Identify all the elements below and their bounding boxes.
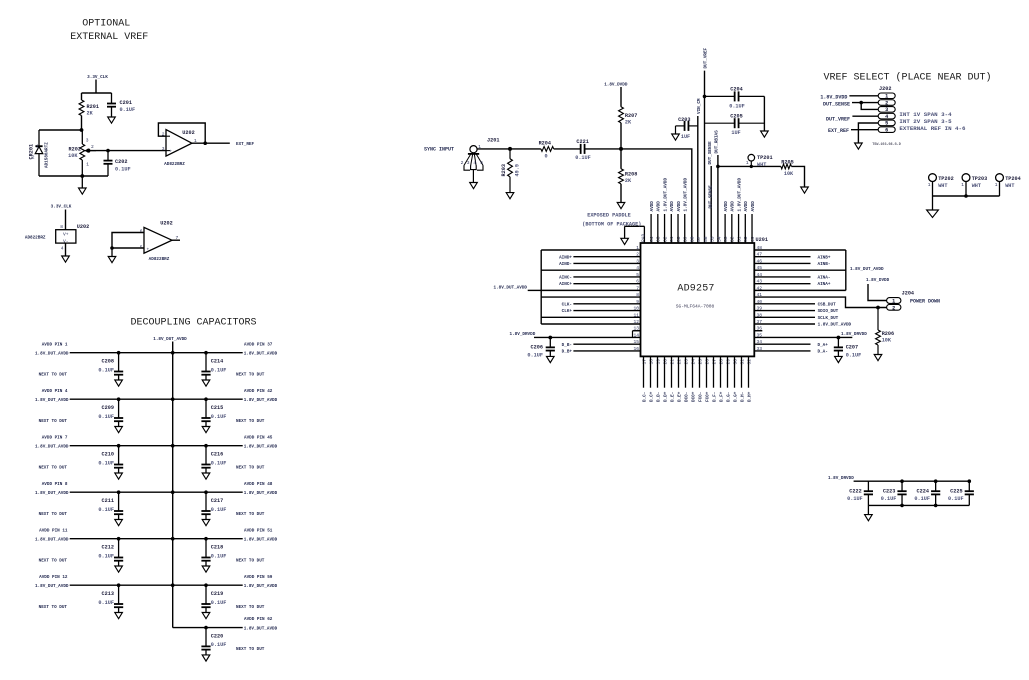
U201 pin 61: [669, 201, 675, 243]
svg-text:2K: 2K: [87, 111, 94, 117]
svg-text:J202: J202: [879, 86, 891, 92]
svg-text:63: 63: [656, 236, 662, 242]
svg-text:C201: C201: [120, 100, 132, 106]
svg-text:3: 3: [162, 146, 165, 152]
svg-text:49: 49: [750, 236, 756, 242]
op-amp U202 (A): [162, 130, 197, 167]
svg-text:C222: C222: [849, 489, 861, 495]
wire decoupling row 4: [70, 491, 243, 494]
svg-text:0.1UF: 0.1UF: [211, 460, 227, 466]
svg-text:NEXT TO DUT: NEXT TO DUT: [39, 372, 68, 377]
capacitor C203 1UF: [676, 117, 698, 140]
svg-text:DCO-: DCO-: [684, 392, 689, 402]
ground: [202, 473, 210, 479]
svg-text:1.8V_DUT_AVDD: 1.8V_DUT_AVDD: [244, 627, 278, 632]
capacitor C213 0.1UF: [98, 585, 123, 612]
svg-text:21: 21: [669, 359, 675, 365]
net label AVDD PIN 48 / 1.8V_DUT_AVDD right: [236, 482, 278, 517]
svg-text:64: 64: [649, 236, 655, 242]
svg-text:1.8V_DUT_AVDD: 1.8V_DUT_AVDD: [850, 267, 884, 272]
wire sync to U201 pin 58: [585, 147, 692, 243]
svg-text:55: 55: [710, 236, 716, 242]
net label AVDD PIN 12 / 1.8V_DUT_AVDD left: [35, 575, 69, 610]
svg-text:3: 3: [467, 160, 470, 166]
ground: [115, 473, 123, 479]
net label SYNC INPUT: [424, 147, 454, 153]
connector J204 POWER DOWN: [887, 291, 940, 312]
op-amp U202 power pins V+ V-: [25, 224, 89, 252]
U201 pin 32: [746, 356, 752, 402]
test point TP203: [961, 174, 987, 196]
svg-text:AVDD PIN 12: AVDD PIN 12: [39, 575, 68, 580]
svg-text:0.1UF: 0.1UF: [98, 507, 114, 513]
svg-text:C224: C224: [917, 489, 929, 495]
wire decoupling row 3: [70, 444, 243, 447]
capacitor C214 0.1UF: [201, 353, 226, 380]
svg-text:TSW-103-08-G-D: TSW-103-08-G-D: [872, 143, 901, 147]
svg-text:32: 32: [746, 359, 752, 365]
U201 pin 43: [754, 279, 831, 288]
ground: [62, 256, 70, 262]
svg-text:R202: R202: [69, 147, 81, 153]
svg-text:C209: C209: [102, 405, 114, 411]
capacitor C206 0.1UF: [527, 336, 554, 358]
svg-text:1: 1: [892, 299, 895, 305]
svg-text:U202: U202: [77, 224, 89, 230]
svg-text:4: 4: [885, 114, 888, 120]
ground: [470, 183, 478, 189]
svg-text:10K: 10K: [68, 153, 78, 159]
svg-text:1.8V_DUT_AVDD: 1.8V_DUT_AVDD: [244, 584, 278, 589]
svg-text:1.8V_DUT_AVDD: 1.8V_DUT_AVDD: [35, 491, 69, 496]
capacitor C218 0.1UF: [201, 539, 226, 566]
svg-text:56: 56: [703, 236, 709, 242]
U201 pin 20: [662, 356, 668, 402]
svg-text:2K: 2K: [625, 178, 632, 184]
U201 pin 48: [754, 245, 846, 251]
wire: [763, 96, 765, 131]
svg-text:AVDD PIN 48: AVDD PIN 48: [244, 482, 273, 487]
svg-text:WHT: WHT: [972, 183, 981, 189]
net 1.8V_DVDD to J202 pin1: [820, 95, 878, 101]
connector J202: [872, 86, 901, 147]
svg-text:0.1UF: 0.1UF: [98, 553, 114, 559]
svg-text:1.8V_DUT_AVDD: 1.8V_DUT_AVDD: [35, 538, 69, 543]
net label AVDD PIN 8 / 1.8V_DUT_AVDD left: [35, 482, 69, 517]
ground: [865, 505, 873, 520]
wire: [791, 166, 804, 187]
wire: [39, 129, 83, 132]
net 1.8V_DUT_AVDD label right bus: [850, 267, 884, 272]
svg-text:+: +: [169, 150, 172, 155]
svg-text:AINC-: AINC-: [559, 276, 572, 281]
U201 pin 50: [743, 201, 749, 243]
svg-text:C225: C225: [950, 489, 962, 495]
capacitor C215 0.1UF: [201, 399, 226, 426]
net label AVDD PIN 59 / 1.8V_DUT_AVDD right: [236, 575, 278, 610]
svg-text:TP203: TP203: [972, 176, 988, 182]
resistor R207 2K: [619, 107, 638, 126]
svg-text:WHT: WHT: [1005, 183, 1014, 189]
svg-text:AVDD PIN 51: AVDD PIN 51: [244, 528, 273, 533]
net 1.8V_DRVDD: [828, 476, 969, 481]
svg-text:DUT_VREF: DUT_VREF: [704, 47, 709, 68]
svg-text:AINB+: AINB+: [818, 255, 831, 260]
wire: [620, 184, 622, 203]
capacitor C202: [104, 151, 131, 176]
ground: [108, 247, 116, 263]
svg-text:D_E+: D_E+: [677, 391, 682, 402]
svg-text:DUT_SENSE: DUT_SENSE: [823, 101, 850, 107]
ground: [621, 226, 629, 244]
svg-text:D_F+: D_F+: [719, 391, 724, 402]
U201 pin 52: [730, 201, 736, 243]
U201 pin 60: [676, 201, 682, 243]
capacitor C224 0.1UF: [914, 480, 940, 507]
net 1.8V_DRVDD label pin35: [841, 332, 867, 337]
net label AVDD PIN 45 / 1.8V_DUT_AVDD right: [236, 435, 278, 470]
net EXT_REF to J202 pin6: [828, 128, 878, 134]
capacitor C225 0.1UF: [948, 480, 974, 505]
wire: [620, 123, 622, 169]
diode CR201 AD1580ARTZ: [29, 130, 50, 176]
svg-text:2K: 2K: [625, 120, 632, 126]
wire: [868, 504, 969, 506]
svg-text:INT 2V SPAN 3-5: INT 2V SPAN 3-5: [899, 118, 952, 125]
svg-text:D_G-: D_G-: [726, 392, 731, 402]
U201 pin 7: [541, 285, 640, 291]
svg-text:R205: R205: [781, 160, 793, 166]
svg-text:U202: U202: [182, 130, 194, 136]
capacitor C217 0.1UF: [201, 492, 226, 519]
svg-text:D_D+: D_D+: [663, 391, 668, 402]
ground: [506, 193, 514, 199]
svg-text:0.1UF: 0.1UF: [847, 496, 863, 502]
U201 pin 16: [562, 346, 641, 355]
U201 pin 24: [690, 356, 696, 402]
svg-text:0.1UF: 0.1UF: [211, 367, 227, 373]
wire from R202 wiper to op-amp: [88, 149, 166, 152]
net 1.8V_DRVDD label pin14: [510, 332, 536, 337]
svg-text:DCO+: DCO+: [691, 391, 696, 402]
svg-text:0.1UF: 0.1UF: [914, 496, 930, 502]
capacitor C207 0.1UF: [834, 337, 861, 358]
svg-text:25: 25: [697, 359, 703, 365]
svg-text:AVDD PIN 7: AVDD PIN 7: [42, 435, 68, 440]
U201 pin 54: [716, 236, 722, 242]
U201 pin 57: [696, 236, 702, 242]
net VIN_CM pin 57 wire: [697, 98, 702, 243]
ground: [835, 356, 843, 362]
net label AVDD PIN 7 / 1.8V_DUT_AVDD left: [35, 435, 69, 470]
svg-text:SYNC INPUT: SYNC INPUT: [424, 147, 454, 153]
wire left AVDD bus: [540, 250, 542, 324]
svg-text:D_C-: D_C-: [642, 392, 647, 402]
svg-text:AVDD PIN 62: AVDD PIN 62: [244, 617, 273, 622]
wire test points: [933, 195, 1000, 198]
svg-text:0.1UF: 0.1UF: [211, 642, 227, 648]
svg-text:OPTIONAL: OPTIONAL: [82, 19, 130, 30]
svg-text:D_A-: D_A-: [818, 350, 828, 355]
svg-text:(BOTTOM OF PACKAGE): (BOTTOM OF PACKAGE): [582, 222, 641, 228]
section title DECOUPLING CAPACITORS: [130, 318, 256, 329]
net label AVDD PIN 37 / 1.8V_DUT_AVDD right: [236, 342, 278, 377]
wire: [39, 175, 108, 178]
U201 pin 46: [754, 258, 830, 267]
svg-text:AVDD PIN 42: AVDD PIN 42: [244, 389, 273, 394]
svg-text:2: 2: [91, 144, 94, 150]
wire output stub: [172, 239, 180, 241]
op-amp U201 AD9257 body: [641, 237, 768, 356]
svg-text:3: 3: [86, 138, 89, 144]
U201 pin 63: [656, 201, 662, 243]
svg-text:AD822BRZ: AD822BRZ: [164, 162, 185, 167]
svg-text:NEXT TO DUT: NEXT TO DUT: [39, 465, 68, 470]
svg-text:62: 62: [662, 236, 668, 242]
svg-text:D_B+: D_B+: [562, 350, 573, 355]
U201 pin 15: [562, 339, 641, 348]
svg-text:TP204: TP204: [1005, 176, 1021, 182]
net DUT_VREF to J202 pin4: [826, 116, 878, 123]
ground: [202, 613, 210, 619]
net DUT_VREF pin 56 wire: [704, 47, 709, 243]
capacitor C204 0.1UF: [703, 87, 764, 110]
U201 pin 13: [633, 326, 641, 338]
capacitor C223 0.1UF: [881, 480, 907, 507]
ground: [547, 356, 555, 362]
resistor R204 0: [539, 140, 554, 159]
ground: [672, 134, 680, 140]
svg-text:TP201: TP201: [757, 155, 773, 161]
svg-text:10K: 10K: [882, 338, 892, 344]
svg-text:AVDD PIN 59: AVDD PIN 59: [244, 575, 273, 580]
U201 pin 23: [683, 356, 689, 402]
svg-text:23: 23: [683, 359, 689, 365]
svg-text:AINB-: AINB-: [818, 262, 831, 267]
wire: [554, 148, 581, 150]
svg-text:C217: C217: [211, 498, 223, 504]
svg-text:DUT_SENSE: DUT_SENSE: [709, 185, 714, 209]
resistor R201: [79, 100, 99, 117]
svg-text:0.1UF: 0.1UF: [575, 155, 591, 161]
ground: [108, 117, 116, 123]
ground: [202, 427, 210, 433]
wire decoupling row 1: [70, 351, 243, 354]
svg-text:EXPOSED PADDLE: EXPOSED PADDLE: [587, 213, 631, 219]
svg-text:1: 1: [36, 144, 39, 150]
U201 pin 64: [649, 201, 655, 243]
U201 pin 41: [754, 292, 886, 309]
svg-text:AINA+: AINA+: [818, 282, 831, 287]
svg-text:3.3V_CLK: 3.3V_CLK: [51, 205, 72, 210]
svg-text:0.1UF: 0.1UF: [846, 353, 862, 359]
svg-text:AVDD: AVDD: [670, 201, 675, 212]
op-amp U202 (B): [140, 221, 179, 263]
capacitor C209 0.1UF: [98, 399, 123, 426]
svg-text:C219: C219: [211, 591, 223, 597]
svg-text:1.8V_DUT_AVDD: 1.8V_DUT_AVDD: [244, 491, 278, 496]
svg-text:10K: 10K: [784, 171, 794, 177]
resistor R206 10K: [876, 308, 895, 355]
svg-text:1UF: 1UF: [681, 134, 690, 140]
svg-text:C215: C215: [211, 405, 223, 411]
svg-text:C210: C210: [102, 452, 114, 458]
svg-text:1UF: 1UF: [731, 130, 740, 136]
svg-text:C214: C214: [211, 359, 223, 365]
U201 pin 34: [754, 339, 828, 348]
svg-text:AVDD: AVDD: [731, 201, 736, 212]
svg-text:1.8V_DUT_AVDD: 1.8V_DUT_AVDD: [818, 323, 852, 328]
svg-text:EXT_REF: EXT_REF: [828, 128, 849, 134]
svg-text:57: 57: [696, 236, 702, 242]
U201 pin 12: [541, 319, 640, 325]
svg-text:AVDD: AVDD: [751, 201, 756, 212]
svg-text:FCO+: FCO+: [705, 391, 710, 402]
connector J201 SMA: [461, 138, 500, 183]
svg-text:D_A+: D_A+: [818, 343, 829, 348]
capacitor C220 0.1UF: [201, 628, 226, 655]
svg-text:1.8V_DUT_AVDD: 1.8V_DUT_AVDD: [684, 178, 689, 212]
svg-text:AVDD PIN 4: AVDD PIN 4: [42, 389, 68, 394]
svg-text:1: 1: [961, 182, 964, 188]
svg-text:DUT_SENSE: DUT_SENSE: [708, 141, 713, 165]
svg-text:AIND+: AIND+: [559, 255, 572, 260]
svg-text:R203: R203: [501, 164, 507, 176]
U201 pin 40: [754, 299, 836, 308]
svg-text:AVDD PIN 37: AVDD PIN 37: [244, 342, 273, 347]
ground: [617, 203, 625, 209]
ground: [115, 520, 123, 526]
net 3.3V_CLK: [51, 205, 72, 230]
svg-text:28: 28: [718, 359, 724, 365]
resistor R203 49.9: [501, 149, 521, 193]
svg-text:NEXT TO DUT: NEXT TO DUT: [236, 372, 265, 377]
svg-text:EXTERNAL REF IN 4-6: EXTERNAL REF IN 4-6: [899, 125, 966, 132]
svg-text:0.1UF: 0.1UF: [211, 414, 227, 420]
svg-text:17: 17: [641, 359, 647, 365]
svg-text:49.9: 49.9: [515, 164, 521, 176]
svg-text:30: 30: [732, 359, 738, 365]
svg-text:C220: C220: [211, 633, 223, 639]
ground: [202, 566, 210, 572]
ground: [874, 355, 882, 361]
U201 pin 39: [754, 306, 838, 315]
svg-text:INT 1V SPAN 3-4: INT 1V SPAN 3-4: [899, 111, 952, 118]
svg-text:54: 54: [716, 236, 722, 242]
net DUT_SENSE to J202 pins 2,3: [823, 101, 878, 109]
wire decoupling row 2: [70, 398, 243, 401]
svg-text:AD9257: AD9257: [677, 284, 714, 295]
svg-text:1.8V_DUT_AVDD: 1.8V_DUT_AVDD: [35, 445, 69, 450]
svg-text:2: 2: [892, 305, 895, 311]
wire output: [205, 142, 230, 144]
svg-text:51: 51: [736, 236, 742, 242]
svg-text:AD822BRZ: AD822BRZ: [149, 257, 170, 262]
svg-text:TP202: TP202: [938, 176, 954, 182]
svg-text:WHT: WHT: [938, 183, 947, 189]
U201 pin 44: [754, 272, 830, 281]
ground: [801, 187, 809, 193]
U201 pin 18: [648, 356, 654, 402]
svg-text:1.8V_DUT_AVDD: 1.8V_DUT_AVDD: [737, 178, 742, 212]
svg-text:R206: R206: [882, 331, 894, 337]
wire decoupling row 6: [70, 584, 243, 587]
U201 pin 27: [711, 356, 717, 402]
U201 pin 9: [562, 299, 641, 308]
U201 pin 3: [559, 258, 640, 267]
svg-text:1.8V_DUT_AVDD: 1.8V_DUT_AVDD: [153, 337, 187, 342]
svg-text:0.1UF: 0.1UF: [881, 496, 897, 502]
capacitor C222 0.1UF: [847, 481, 873, 505]
test point TP204: [995, 174, 1021, 196]
svg-text:6: 6: [885, 128, 888, 134]
net EXT_REF: [236, 142, 254, 147]
svg-text:NEXT TO DUT: NEXT TO DUT: [39, 419, 68, 424]
wire decoupling row 5: [70, 537, 243, 540]
note INT 1V SPAN 3-4: [899, 111, 952, 118]
section title OPTIONAL EXTERNAL VREF: [70, 19, 148, 44]
svg-text:NEXT TO DUT: NEXT TO DUT: [236, 419, 265, 424]
net 1.8V_DUT_AVDD label left: [493, 285, 541, 290]
svg-text:EXTERNAL VREF: EXTERNAL VREF: [70, 32, 148, 43]
svg-text:VIN_CM: VIN_CM: [697, 98, 702, 114]
svg-text:AVDD PIN 11: AVDD PIN 11: [39, 528, 68, 533]
wire decoupling row 7: [173, 626, 243, 629]
svg-text:POWER DOWN: POWER DOWN: [910, 299, 940, 305]
U201 pin 10: [562, 306, 641, 315]
svg-text:AVDD: AVDD: [724, 201, 729, 212]
svg-text:0.1UF: 0.1UF: [211, 600, 227, 606]
U201 pin 30: [732, 356, 738, 402]
svg-text:VREF SELECT (PLACE NEAR DUT): VREF SELECT (PLACE NEAR DUT): [823, 72, 991, 84]
U201 pin 4: [541, 265, 640, 271]
svg-text:NEXT TO DUT: NEXT TO DUT: [39, 512, 68, 517]
svg-text:53: 53: [723, 236, 729, 242]
svg-text:PAD: PAD: [641, 233, 647, 242]
U201 pin 29: [725, 356, 731, 402]
svg-text:8: 8: [60, 224, 63, 230]
svg-text:R207: R207: [625, 113, 637, 119]
svg-text:52: 52: [730, 236, 736, 242]
svg-text:C212: C212: [102, 545, 114, 551]
U201 pin 35: [754, 332, 852, 338]
resistor R205 10K: [781, 160, 794, 177]
U201 pin 1: [541, 245, 640, 251]
ground: [115, 566, 123, 572]
U201 pin 33: [754, 346, 828, 355]
svg-text:FCO-: FCO-: [698, 392, 703, 402]
svg-text:18: 18: [648, 359, 654, 365]
U201 pin 14: [534, 332, 641, 338]
svg-text:SCLK_DUT: SCLK_DUT: [818, 316, 839, 321]
svg-text:1.8V_DUT_AVDD: 1.8V_DUT_AVDD: [663, 178, 668, 212]
net label AVDD PIN 51 / 1.8V_DUT_AVDD right: [236, 528, 278, 563]
svg-text:D_F-: D_F-: [712, 392, 717, 402]
svg-text:NEXT TO DUT: NEXT TO DUT: [236, 512, 265, 517]
U201 pin 2: [559, 252, 640, 261]
svg-text:1.8V_DUT_AVDD: 1.8V_DUT_AVDD: [493, 285, 527, 290]
svg-text:U202: U202: [160, 221, 172, 227]
svg-text:AVDD: AVDD: [677, 201, 682, 212]
svg-text:DUT_VREF: DUT_VREF: [826, 117, 850, 123]
U201 pin 59: [683, 178, 689, 243]
ground: [761, 131, 769, 137]
svg-text:C218: C218: [211, 545, 223, 551]
svg-text:0.1UF: 0.1UF: [211, 507, 227, 513]
net label AVDD PIN 11 / 1.8V_DUT_AVDD left: [35, 528, 69, 563]
wire: [65, 243, 67, 256]
svg-text:C216: C216: [211, 452, 223, 458]
